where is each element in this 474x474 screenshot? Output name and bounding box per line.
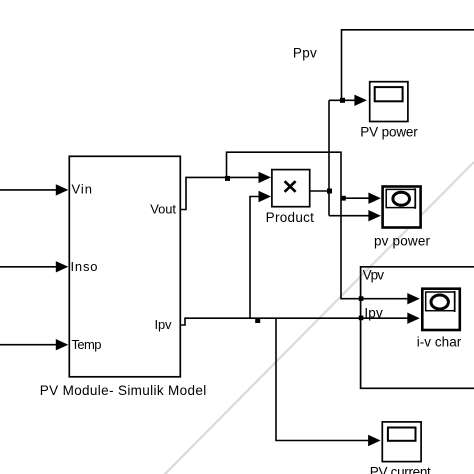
svg-text:Vpv: Vpv	[363, 268, 385, 283]
wire Ppv net vertical	[329, 30, 474, 222]
svg-text:Inso: Inso	[71, 259, 98, 274]
wire Ipv output to i-v char input 2	[181, 313, 420, 326]
frame subsystem boundary right	[361, 267, 474, 389]
wire Product output	[311, 190, 330, 192]
junction Ppv top line	[340, 98, 345, 103]
svg-text:PV Module- Simulik Model: PV Module- Simulik Model	[40, 383, 207, 398]
svg-text:Ipv: Ipv	[155, 317, 173, 332]
svg-text:Temp: Temp	[72, 337, 102, 352]
block Product	[266, 170, 315, 225]
svg-text:i-v char: i-v char	[417, 335, 462, 350]
block PV power scope	[360, 82, 418, 140]
junction Vpv wire crossing frame	[359, 296, 364, 301]
svg-text:Vout: Vout	[150, 202, 176, 217]
wire Inso input	[0, 261, 68, 272]
junction pv power input1 branch	[341, 196, 346, 201]
wire Vout to Product input 1	[181, 172, 272, 210]
junction Product output	[327, 189, 332, 194]
wire Vin input	[0, 184, 68, 195]
block PV current scope	[370, 422, 431, 474]
wire Vpv branch (Vout to pv power scope and i-v char)	[227, 152, 420, 304]
junction Ipv wire crossing frame	[359, 316, 364, 321]
block PV Module- Simulik Model subsystem	[40, 156, 207, 397]
junction Ipv to product branch	[255, 318, 260, 323]
wire Ipv branch to Product input 2	[250, 191, 271, 318]
block i-v char XY graph	[417, 289, 462, 350]
svg-text:Product: Product	[266, 210, 315, 225]
wire Temp input	[0, 339, 68, 350]
wire Ipv branch to PV current scope	[276, 318, 381, 446]
svg-text:Ppv: Ppv	[293, 45, 317, 60]
block pv power XY graph	[374, 187, 431, 249]
svg-text:PV power: PV power	[360, 124, 418, 139]
svg-text:Ipv: Ipv	[364, 305, 383, 320]
junction Vout branch	[225, 176, 230, 181]
svg-text:PV current: PV current	[370, 464, 431, 474]
svg-text:pv power: pv power	[374, 234, 431, 249]
svg-text:Vin: Vin	[72, 181, 93, 196]
watermark diagonal	[163, 162, 474, 474]
